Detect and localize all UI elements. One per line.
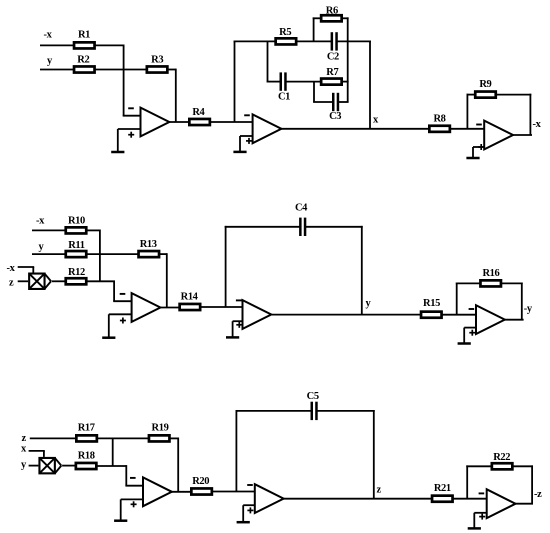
svg-text:R5: R5 — [279, 27, 291, 38]
ground U9 ground — [468, 513, 481, 529]
wire R3 feedback vertical down — [175, 69, 177, 122]
wire C3 right stub — [338, 101, 349, 103]
svg-text:R2: R2 — [77, 55, 89, 66]
wire jog down to B1 inverting — [113, 281, 115, 301]
wire U5 + input — [233, 320, 243, 322]
resistor R10 — [66, 227, 87, 233]
wire R9 to right vertical — [496, 94, 532, 96]
op-amp U7 — [130, 477, 172, 507]
capacitor C4 — [300, 218, 305, 236]
svg-text:-y: -y — [524, 304, 533, 315]
wire integrator feedback right vertical — [369, 41, 371, 129]
wire y input to R2 — [40, 69, 74, 71]
svg-text:R9: R9 — [479, 79, 491, 90]
wire R16 feedback vertical left — [456, 283, 458, 315]
wire multiplier X2 output to R18 — [62, 465, 75, 467]
wire -x input to R10 — [32, 229, 66, 231]
svg-text:-x: -x — [36, 216, 45, 227]
wire R7 right stub — [342, 81, 349, 83]
wire multiplier top drop — [32, 267, 34, 273]
wire R9 left stub — [467, 94, 476, 96]
svg-text:C5: C5 — [307, 391, 319, 402]
wire C1 left stub — [267, 81, 281, 83]
resistor R8 — [429, 126, 450, 132]
ground U2 ground — [233, 136, 246, 152]
wire U6 + input — [464, 327, 476, 329]
op-amp U1 — [128, 108, 169, 138]
capacitor C5 — [312, 402, 317, 420]
wire U1 + input — [118, 128, 141, 130]
resistor R11 — [66, 251, 87, 257]
wire y input to R11 — [32, 253, 66, 255]
wire U9 + input — [474, 512, 486, 514]
resistor R9 — [475, 92, 496, 98]
wire R11 to R13 — [86, 253, 138, 255]
svg-text:C2: C2 — [327, 51, 339, 62]
svg-text:R1: R1 — [78, 30, 90, 41]
wire U3 + input — [473, 146, 484, 148]
wire multiplier X1 output to R12 — [52, 280, 66, 282]
wire R9 feedback vertical right — [529, 94, 531, 135]
wire summing vertical row2 — [99, 230, 101, 282]
wire C5 top left horizontal — [236, 410, 312, 412]
wire R18 to corner — [96, 465, 126, 467]
ground U6 ground — [458, 328, 471, 344]
svg-text:R7: R7 — [326, 67, 338, 78]
wire C5 feedback vertical right — [373, 410, 375, 499]
wire R10 to summing vertical — [86, 229, 100, 231]
wire C5 top right horizontal — [316, 410, 374, 412]
wire R9 feedback vertical left — [466, 94, 468, 129]
wire R6 branch vertical up — [313, 17, 315, 41]
wire U2 + input — [240, 135, 253, 137]
resistor R2 — [74, 66, 95, 72]
svg-text:R11: R11 — [68, 240, 84, 251]
svg-text:R3: R3 — [151, 55, 163, 66]
multiplier X2 — [39, 458, 61, 473]
wire R22 feedback vertical right — [531, 465, 533, 503]
ground U4 ground — [102, 314, 115, 337]
wire C1 branch vertical — [267, 41, 269, 81]
svg-text:R19: R19 — [152, 422, 169, 433]
wire R17 to R19 — [97, 437, 149, 439]
wire node vertical to feedback net — [234, 41, 236, 123]
wire R22 left stub — [466, 465, 491, 467]
svg-text:z: z — [22, 433, 27, 444]
svg-text:R12: R12 — [68, 267, 85, 278]
wire R2 to R3 — [95, 69, 147, 71]
wire C1 to R7 — [285, 81, 321, 83]
svg-text:C3: C3 — [329, 111, 341, 122]
wire z input to R17 — [30, 437, 77, 439]
wire C4 feedback vertical right — [361, 226, 363, 315]
op-amp U8 — [247, 484, 283, 513]
wire U4 output to R14 — [160, 307, 180, 309]
svg-text:-z: -z — [534, 489, 542, 500]
resistor R17 — [76, 435, 97, 441]
wire R13 to corner — [159, 253, 167, 255]
wire R16 to right vertical — [501, 282, 523, 284]
resistor R16 — [480, 280, 501, 286]
wire R12 to corner — [86, 280, 115, 282]
wire R6 right stub — [342, 17, 349, 19]
wire x output line — [281, 128, 430, 130]
wire C2 to output vertical — [337, 40, 371, 42]
wire C4 top right horizontal — [305, 226, 363, 228]
svg-text:R21: R21 — [434, 483, 451, 494]
svg-text:-x: -x — [533, 119, 542, 130]
op-amp U9 — [479, 489, 516, 519]
resistor R6 — [321, 15, 342, 21]
svg-text:R8: R8 — [433, 113, 445, 124]
wire U1 output to R4 — [169, 121, 190, 123]
wire x to multiplier top — [29, 450, 45, 452]
resistor R18 — [76, 463, 97, 469]
wire R15 to U6 inverting input — [442, 314, 476, 316]
svg-text:z: z — [9, 278, 14, 289]
wire U7 + input — [121, 498, 143, 500]
svg-text:z: z — [377, 485, 382, 496]
wire C4 top left horizontal — [225, 226, 301, 228]
resistor R21 — [432, 496, 453, 502]
wire R13 feedback vertical down — [166, 253, 168, 307]
wire into op-amp U1 inverting input — [123, 115, 141, 117]
wire summing vertical row3 — [112, 438, 114, 467]
wire jog down to C1op inverting — [125, 465, 127, 486]
wire U3 output — [513, 134, 532, 136]
svg-text:R13: R13 — [140, 239, 157, 250]
svg-text:R15: R15 — [423, 298, 440, 309]
wire R22 feedback vertical left — [466, 465, 468, 498]
resistor R14 — [180, 304, 201, 310]
ground U8 ground — [237, 505, 250, 522]
resistor R20 — [191, 488, 212, 494]
multiplier X1 — [29, 274, 51, 289]
op-amp U3 — [476, 121, 513, 150]
wire z to multiplier — [18, 280, 28, 282]
wire R3 to corner — [167, 69, 175, 71]
wire C4 feedback vertical left — [225, 226, 227, 307]
ground U1 ground — [111, 129, 124, 152]
wire R20 to U8 inverting input — [212, 491, 255, 493]
wire summing vertical R1 down — [123, 45, 125, 116]
wire multiplier top drop row3 — [43, 451, 45, 457]
wire R6-R7 right vertical — [347, 17, 349, 102]
wire R4 to U2 inverting input — [210, 121, 253, 123]
svg-text:-x: -x — [7, 263, 16, 274]
wire R22 to right vertical — [512, 465, 533, 467]
op-amp U5 — [236, 300, 271, 329]
svg-text:R20: R20 — [192, 476, 209, 487]
resistor R12 — [66, 278, 87, 284]
svg-text:C1: C1 — [278, 92, 290, 103]
wire R14 to U5 inverting input — [200, 306, 242, 308]
resistor R1 — [74, 42, 95, 48]
op-amp U6 — [469, 305, 505, 336]
resistor R5 — [276, 38, 297, 44]
op-amp U2 — [244, 114, 281, 143]
svg-text:R17: R17 — [78, 422, 95, 433]
wire -x input to R1 — [40, 44, 74, 46]
svg-text:R14: R14 — [181, 291, 199, 302]
svg-text:-x: -x — [44, 30, 53, 41]
resistor R3 — [147, 66, 168, 72]
wire R16 feedback vertical right — [521, 283, 523, 320]
wire z output line — [283, 498, 432, 500]
resistor R15 — [421, 312, 442, 318]
ground U3 ground — [466, 147, 479, 158]
ground U7 ground — [114, 499, 127, 520]
wire R8 to U3 inverting input — [450, 128, 484, 130]
wire R16 left stub — [456, 282, 481, 284]
wire R21 to U9 inverting input — [453, 498, 487, 500]
resistor R19 — [149, 435, 170, 441]
wire U9 output — [515, 503, 533, 505]
wire y output line — [271, 314, 422, 316]
resistor R4 — [189, 119, 210, 125]
wire feedback top-left horizontal — [234, 40, 276, 42]
wire R1 to summing vertical — [95, 44, 124, 46]
wire U7 output to R20 — [171, 491, 191, 493]
wire R19 feedback vertical down — [177, 438, 179, 492]
svg-text:R18: R18 — [78, 450, 95, 461]
wire -x to multiplier top — [18, 266, 35, 268]
wire y to multiplier — [29, 465, 39, 467]
ground U5 ground — [226, 321, 239, 337]
svg-text:R4: R4 — [192, 107, 205, 118]
wire C3 branch vertical — [313, 82, 315, 102]
op-amp U4 — [120, 293, 161, 323]
svg-text:R16: R16 — [482, 268, 499, 279]
capacitor C1 — [281, 72, 286, 90]
resistor R22 — [492, 463, 512, 469]
svg-text:C4: C4 — [295, 203, 308, 214]
wire C3 left stub — [313, 101, 333, 103]
resistor R7 — [321, 79, 342, 85]
wire C5 feedback vertical left — [235, 410, 237, 492]
wire R19 to corner — [170, 437, 179, 439]
capacitor C3 — [333, 93, 338, 111]
wire R5 to C2 — [296, 40, 331, 42]
svg-text:R22: R22 — [493, 452, 510, 463]
wire into op-amp B1 inverting input — [113, 300, 131, 302]
wire U4 + input — [109, 313, 132, 315]
wire U8 + input — [243, 504, 255, 506]
resistor R13 — [139, 251, 160, 257]
wire into op-amp row3 inverting input — [125, 485, 143, 487]
capacitor C2 — [332, 32, 337, 50]
wire U6 output — [504, 319, 523, 321]
wire R6 left stub — [313, 17, 321, 19]
svg-text:R10: R10 — [68, 216, 85, 227]
